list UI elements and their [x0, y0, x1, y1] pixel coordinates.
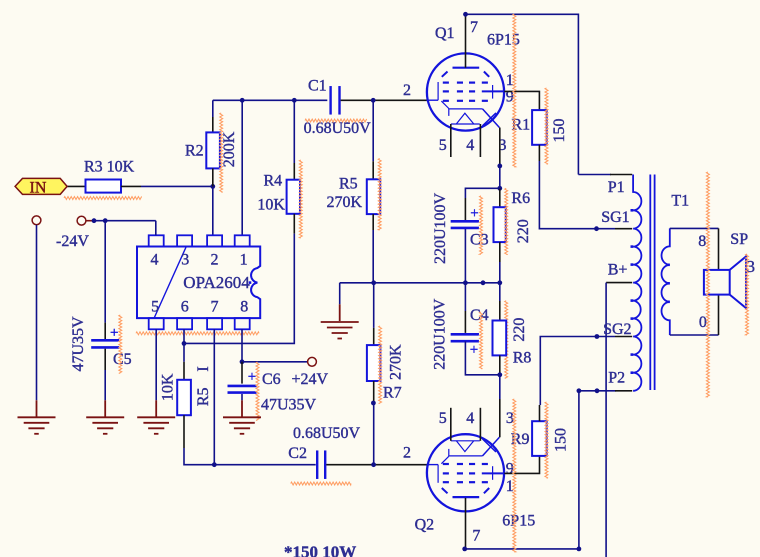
tap P2	[579, 390, 616, 392]
squiggle above C1 value	[305, 119, 367, 122]
svg-text:220U100V: 220U100V	[432, 193, 449, 265]
squiggle under R2	[220, 113, 223, 192]
svg-text:C3: C3	[470, 232, 489, 249]
wire: Q2 plate pin 7 to bottom rail	[465, 498, 467, 549]
svg-text:4: 4	[466, 410, 474, 427]
wire: -24V down to C5	[104, 221, 106, 323]
resistor R3 10K	[86, 180, 122, 193]
wire: node A down to op-amp pin 2	[212, 186, 214, 235]
junction dot +24V node	[240, 359, 245, 364]
svg-text:C6: C6	[262, 371, 281, 388]
wire: C5 to ground	[104, 349, 106, 370]
squiggle under IN and R3	[64, 197, 142, 200]
svg-text:IN: IN	[30, 180, 47, 197]
wire: -24V to op-amp pin 4	[86, 220, 94, 222]
svg-text:270K: 270K	[388, 344, 405, 380]
svg-text:4: 4	[151, 252, 159, 269]
junction dots on -24V wire	[92, 218, 97, 223]
op-amp pin boxes top: 4 3 2 1	[149, 235, 164, 246]
ground G5 (rail)	[321, 321, 359, 323]
resistor R5 270K (upper)	[367, 179, 380, 214]
wire: top rail to transformer P1	[466, 14, 579, 174]
op-amp slash	[154, 247, 186, 319]
squiggle beside C5	[119, 315, 122, 373]
wire: bottom rail to P2 riser	[465, 548, 579, 550]
port terminal circle (input shield)	[32, 216, 41, 225]
junction dot P2 line left	[577, 388, 582, 393]
junction dot rail/R5R7 column	[371, 280, 376, 285]
squiggle beside C6	[256, 362, 259, 420]
wire: down to R5 270K	[372, 100, 374, 161]
junction dot pin7/bottom line	[212, 462, 217, 467]
junction dot rail/C3-C4 column	[463, 280, 468, 285]
wire: node down to Q2 pin 3	[499, 375, 501, 399]
junction dot R4 column	[292, 98, 297, 103]
squiggles beside R1	[513, 14, 516, 167]
ground G2	[86, 416, 124, 418]
svg-text:R6: R6	[511, 190, 530, 207]
squiggle beside R5 270K	[378, 159, 381, 231]
secondary winding cusp nubs	[667, 264, 670, 267]
svg-text:SP: SP	[730, 231, 748, 248]
svg-text:200K: 200K	[221, 131, 238, 167]
wire: R1 bottom to SG1	[538, 145, 540, 161]
svg-text:Q1: Q1	[435, 25, 455, 42]
op-amp pin boxes bottom: 5 6 7 8	[149, 318, 164, 329]
wire: Q1 plate pin 7 to top rail	[465, 14, 467, 67]
svg-text:2: 2	[403, 445, 411, 462]
svg-text:+: +	[248, 369, 256, 385]
svg-text:1: 1	[506, 72, 514, 89]
wire: C6 to ground	[241, 394, 243, 400]
junction dot bottom rail left	[462, 547, 467, 552]
wire: ground rail stub down	[339, 283, 341, 305]
svg-text:+: +	[470, 342, 478, 358]
svg-text:3: 3	[181, 252, 189, 269]
svg-text:6: 6	[181, 299, 189, 316]
svg-text:2: 2	[403, 82, 411, 99]
tap B+ and feed line down	[606, 282, 632, 284]
svg-text:5: 5	[151, 299, 159, 316]
svg-text:R7: R7	[383, 385, 402, 402]
junction dot R7 column / bottom line	[371, 462, 376, 467]
svg-text:B+: B+	[608, 262, 628, 279]
wire: R5 bottom to ground rail	[372, 214, 374, 230]
squiggles beside C3/R6	[480, 196, 483, 255]
svg-text:270K: 270K	[327, 194, 363, 211]
svg-text:7: 7	[470, 19, 478, 36]
svg-text:8: 8	[698, 233, 706, 250]
svg-text:2: 2	[211, 252, 219, 269]
node A junction dot (R3/R2/pin2)	[210, 184, 215, 189]
resistor R9 150	[532, 421, 547, 456]
transformer core	[649, 175, 651, 391]
svg-text:4: 4	[466, 137, 474, 154]
svg-text:P1: P1	[608, 179, 625, 196]
svg-text:5: 5	[439, 137, 447, 154]
wire: C3 branch	[465, 188, 499, 198]
wire: op-amp output rail (top)	[213, 99, 327, 101]
wire: +24V branch to terminal	[242, 361, 308, 363]
junction dot SG1 wire	[594, 226, 599, 231]
wire: rail down to op-amp pin 1	[241, 100, 243, 235]
svg-text:C4: C4	[470, 307, 489, 324]
svg-text:C1: C1	[308, 78, 327, 95]
wire: R4 bottom to op-amp pin 6 node	[293, 214, 295, 234]
junction dot top rail	[463, 12, 468, 17]
svg-text:0: 0	[699, 314, 707, 331]
junction dot rail/R6-R8 column	[497, 280, 502, 285]
resistor R7 270K (lower)	[373, 283, 375, 328]
junction dot rail (extra)	[481, 280, 486, 285]
resistor R8 220 (cathode)	[499, 283, 501, 301]
svg-text:47U35V: 47U35V	[70, 316, 87, 372]
vacuum tube Q1 6P15 (upper)	[427, 53, 504, 130]
svg-text:+: +	[110, 325, 118, 341]
wire: secondary top (8) to speaker	[670, 227, 719, 229]
junction dot cathode node	[497, 164, 502, 169]
wire: R9 top to SG2	[539, 405, 541, 421]
svg-text:R3 10K: R3 10K	[84, 159, 135, 176]
resistor R4 10K	[287, 180, 300, 214]
primary winding cusp nubs	[631, 209, 634, 212]
ground G3	[137, 416, 175, 418]
ground G1	[18, 416, 56, 418]
junction dot C3 branch	[497, 186, 502, 191]
tap P1	[578, 174, 611, 176]
wire: op-amp pin 7 down to bottom line	[213, 329, 215, 464]
wire: C4 bottom branch to pin3 column	[465, 341, 499, 375]
svg-text:10K: 10K	[160, 373, 177, 401]
svg-text:5: 5	[439, 410, 447, 427]
squiggle beside R4	[299, 160, 302, 238]
capacitor C3 220U100V	[451, 220, 479, 223]
port IN (input)	[15, 178, 67, 194]
ground G4	[223, 416, 261, 418]
wire: 10K bottom to bottom line	[183, 415, 185, 448]
speaker SP	[704, 270, 730, 295]
squiggles near speaker	[706, 172, 709, 397]
squiggle under C2	[291, 482, 351, 485]
svg-text:-24V: -24V	[56, 233, 89, 250]
resistor R5 10K (lower)	[177, 380, 191, 415]
svg-text:*150 10W: *150 10W	[284, 543, 356, 557]
tap SG1	[615, 228, 632, 230]
junction dot P2 tap	[595, 388, 600, 393]
port terminal circle -24V	[77, 216, 86, 225]
wire: Q1 pin 3 cathode column	[499, 128, 501, 166]
wire: riser up to P2	[578, 391, 580, 549]
svg-text:R5: R5	[195, 387, 212, 406]
vacuum tube Q2 6P15 (lower, mirrored)	[427, 434, 504, 511]
junction dot R5 column	[371, 98, 376, 103]
svg-text:150: 150	[553, 428, 570, 452]
svg-text:47U35V: 47U35V	[261, 397, 317, 414]
junction dot bottom rail right	[577, 547, 582, 552]
svg-text:1: 1	[240, 252, 248, 269]
squiggle under op-amp	[136, 332, 259, 335]
svg-text:P2: P2	[608, 370, 625, 387]
svg-text:R8: R8	[513, 350, 532, 367]
resistor R2 200K (feedback)	[212, 100, 214, 117]
wire: rail down to R4	[293, 100, 295, 163]
svg-text:6P15: 6P15	[502, 513, 535, 530]
squiggles beside C4/R8	[480, 312, 483, 369]
junction dot SG2 wire	[595, 334, 600, 339]
capacitor C4 220U100V	[451, 333, 479, 336]
svg-text:220U100V: 220U100V	[432, 298, 449, 370]
svg-text:+24V: +24V	[292, 371, 329, 388]
wire: op-amp pin 8 (+24V) column	[241, 329, 243, 362]
junction dot under R7	[371, 401, 376, 406]
capacitor C6 47U35V (polarized)	[228, 385, 257, 388]
wire: op-amp pin 6 node	[183, 329, 185, 362]
wire: ground rail (middle)	[340, 282, 500, 284]
wire: R3 to node A (op-amp input)	[121, 185, 141, 187]
resistor R6 220 (cathode)	[494, 207, 506, 242]
svg-text:+: +	[470, 206, 478, 222]
svg-text:220: 220	[511, 318, 528, 342]
svg-text:C2: C2	[288, 445, 307, 462]
junction dot C4/R8/pin3 node	[497, 372, 502, 377]
svg-text:8: 8	[240, 299, 248, 316]
svg-text:SG2: SG2	[603, 321, 631, 338]
wire: C1 right to Q1 grid	[341, 99, 429, 101]
svg-text:R4: R4	[264, 173, 283, 190]
svg-text:0.68U50V: 0.68U50V	[293, 425, 361, 442]
svg-text:220: 220	[515, 219, 532, 243]
squiggles beside R9	[513, 399, 516, 552]
svg-text:7: 7	[472, 528, 480, 545]
svg-text:T1: T1	[671, 193, 689, 210]
svg-text:9: 9	[506, 461, 514, 478]
wire: C2 right to Q2 grid	[326, 464, 429, 466]
tap SG2	[615, 336, 632, 338]
port terminal circle +24V	[308, 357, 317, 366]
junction dot pin6/R4/R5	[182, 341, 187, 346]
svg-text:R5: R5	[339, 176, 358, 193]
svg-text:Q2: Q2	[415, 517, 435, 534]
wire: input line IN to R3	[67, 185, 85, 187]
svg-text:OPA2604: OPA2604	[183, 273, 250, 292]
wire: Q1 pin 9 to R1	[504, 91, 539, 110]
capacitor C1 0.68U50V	[329, 86, 331, 115]
svg-text:SG1: SG1	[601, 209, 629, 226]
svg-text:7: 7	[211, 299, 219, 316]
svg-text:10K: 10K	[257, 197, 285, 214]
wire: shield terminal down to ground	[36, 225, 38, 400]
capacitor C5 47U35V (polarized)	[91, 339, 119, 342]
op-amp U1 OPA2604 DIP-8 body with right-edge notch	[137, 247, 260, 319]
squiggle beside R7	[379, 326, 382, 404]
svg-text:150: 150	[551, 119, 568, 143]
wire: rail down to C4	[464, 283, 466, 311]
wire: op-amp pin 5 to ground	[155, 329, 157, 400]
wire: secondary bottom (0) to speaker	[670, 334, 719, 336]
wire: C3 bottom to rail	[464, 229, 466, 283]
wire: Q2 pin 9 to R9	[504, 456, 539, 474]
svg-text:R2: R2	[185, 143, 204, 160]
capacitor C2 0.68U50V	[316, 450, 318, 479]
resistor R1 150	[532, 110, 547, 145]
svg-text:I: I	[195, 366, 212, 371]
transformer T1 secondary winding	[662, 228, 670, 335]
junction dot pin1 column	[240, 98, 245, 103]
